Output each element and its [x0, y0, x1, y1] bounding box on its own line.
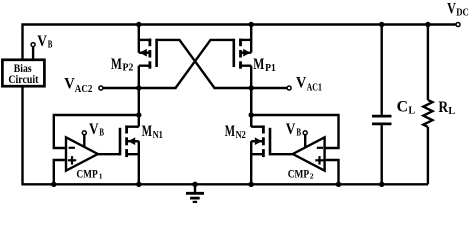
svg-text:DC: DC [456, 7, 469, 19]
svg-text:M: M [225, 121, 235, 140]
svg-text:CMP: CMP [76, 168, 98, 180]
svg-text:V: V [447, 0, 456, 18]
svg-text:1: 1 [99, 172, 103, 181]
svg-text:P1: P1 [265, 62, 276, 74]
svg-text:M: M [253, 54, 264, 73]
svg-text:P2: P2 [123, 62, 134, 74]
svg-text:M: M [142, 121, 152, 140]
svg-text:V: V [286, 119, 296, 138]
svg-text:R: R [438, 97, 448, 116]
svg-text:AC2: AC2 [75, 83, 93, 95]
svg-text:2: 2 [310, 172, 314, 181]
svg-text:CMP: CMP [288, 168, 310, 180]
svg-text:AC1: AC1 [307, 82, 322, 94]
svg-text:B: B [99, 127, 104, 139]
svg-text:L: L [408, 105, 415, 117]
svg-text:B: B [296, 127, 301, 139]
svg-text:B: B [48, 39, 53, 51]
svg-text:L: L [448, 105, 455, 117]
svg-text:M: M [111, 54, 122, 73]
svg-text:C: C [397, 97, 408, 116]
svg-text:V: V [37, 31, 47, 50]
svg-text:Circuit: Circuit [8, 73, 38, 86]
svg-text:N1: N1 [153, 129, 163, 141]
svg-text:V: V [64, 74, 75, 93]
svg-text:V: V [296, 73, 307, 92]
svg-text:N2: N2 [236, 129, 246, 141]
svg-text:V: V [89, 119, 99, 138]
